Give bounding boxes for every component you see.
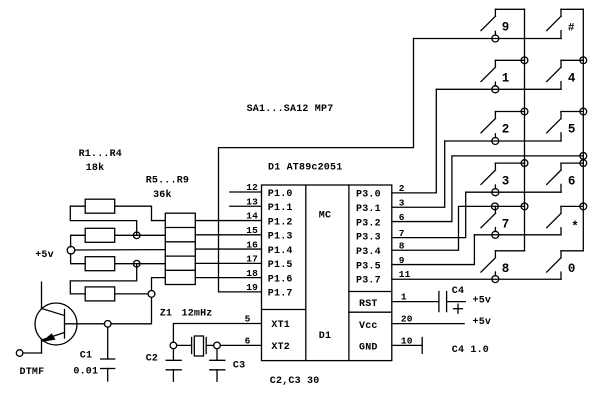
label +5v left: [35, 250, 54, 261]
pin label P3.7: [356, 276, 381, 287]
capacitor C3: [210, 349, 225, 382]
svg-text:RST: RST: [359, 299, 378, 310]
right column bus: [582, 9, 584, 251]
pin number 14: [246, 211, 258, 222]
svg-text:C4: C4: [452, 286, 464, 297]
svg-text:2: 2: [502, 123, 510, 137]
left bus junction row2: [521, 108, 528, 115]
svg-text:12mHz: 12mHz: [182, 308, 213, 319]
IC D1 AT89c2051 microcontroller body: [262, 185, 392, 361]
wire row3 to P3.3: [392, 192, 561, 237]
switch SA right row4 key *: [547, 206, 584, 234]
svg-text:P3.2: P3.2: [356, 218, 381, 229]
svg-text:#: #: [568, 23, 575, 35]
svg-text:4: 4: [568, 72, 576, 86]
pin number 12: [246, 182, 258, 193]
svg-text:P3.7: P3.7: [356, 276, 381, 287]
wire R3 to +5v: [71, 254, 86, 264]
node G junction: [492, 203, 499, 210]
pin number 18: [246, 268, 258, 279]
switch SA left row2 key 2: [481, 112, 525, 138]
pin label P1.7: [268, 289, 293, 300]
pin label P1.1: [268, 203, 293, 214]
svg-text:+5v: +5v: [473, 317, 492, 328]
label MC: [319, 211, 331, 222]
svg-text:C2,C3 30: C2,C3 30: [270, 376, 320, 387]
pin number 17: [246, 254, 258, 265]
wire node B to R4: [70, 264, 136, 294]
transistor Q1 collector: [42, 282, 65, 316]
label key 1: [502, 72, 510, 86]
svg-text:3: 3: [502, 174, 510, 188]
wire base to node D: [65, 323, 105, 325]
label key 4: [568, 72, 576, 86]
pin label P1.6: [268, 274, 293, 285]
node F junction: [214, 342, 221, 349]
pin number 13: [246, 196, 258, 207]
wire pin 14: [195, 220, 261, 222]
svg-text:0.01: 0.01: [73, 366, 98, 377]
left column bus: [524, 9, 526, 251]
pin label P1.0: [268, 189, 293, 200]
pin label XT1: [271, 320, 290, 331]
node D junction: [104, 321, 111, 328]
wire row4 to P3.5: [392, 235, 561, 265]
label C2,C3 30: [270, 376, 320, 387]
resistor R1: [85, 199, 115, 213]
svg-text:0: 0: [568, 262, 576, 276]
wire node C to base: [111, 297, 152, 324]
pin label P3.1: [356, 204, 381, 215]
pin number 19: [246, 282, 258, 293]
pin number 2: [399, 183, 405, 194]
svg-text:5: 5: [568, 123, 576, 137]
pin label P1.3: [268, 232, 293, 243]
pin number 5: [245, 314, 251, 325]
svg-text:D1: D1: [319, 331, 331, 342]
wire pin1 to C4: [392, 301, 439, 303]
pin number 10: [401, 335, 413, 346]
label +5v rst: [473, 295, 492, 306]
label key 3: [502, 174, 510, 188]
contact terminal key 2: [492, 138, 499, 145]
capacitor C4: [439, 292, 465, 312]
wire R1 to node A: [70, 206, 136, 235]
resistor network R5...R9 body: [165, 213, 195, 284]
transistor Q1 emitter: [42, 333, 65, 354]
left bus junction row4: [521, 203, 528, 210]
label key *: [571, 220, 579, 234]
crystal Z1: [177, 336, 214, 356]
label key 9: [502, 21, 510, 35]
left bus junction row3: [521, 160, 528, 167]
svg-text:7: 7: [502, 218, 510, 232]
label R1...R4: [79, 149, 122, 160]
svg-text:C1: C1: [80, 350, 92, 361]
svg-text:XT1: XT1: [271, 320, 290, 331]
right bus junction row4: [580, 203, 587, 210]
svg-text:1: 1: [502, 72, 510, 86]
label key 8: [502, 262, 510, 276]
svg-text:P1.4: P1.4: [268, 246, 293, 257]
wire pin20 Vcc: [392, 323, 464, 325]
label C3: [233, 360, 245, 371]
pin label P3.5: [356, 261, 381, 272]
wire P3.4 to left bus: [392, 206, 496, 250]
ground terminal: [421, 338, 423, 354]
switch SA left row5 key 8: [481, 251, 525, 276]
label C4 1.0: [452, 345, 489, 356]
wire pin 17: [195, 262, 261, 264]
svg-text:8: 8: [502, 262, 510, 276]
svg-text:+5v: +5v: [35, 250, 54, 261]
pin label XT2: [271, 342, 290, 353]
svg-text:P1.6: P1.6: [268, 274, 293, 285]
svg-text:DTMF: DTMF: [20, 367, 45, 378]
svg-text:P3.0: P3.0: [356, 190, 381, 201]
svg-text:C4 1.0: C4 1.0: [452, 345, 489, 356]
label key 7: [502, 218, 510, 232]
pin number 6: [399, 212, 405, 223]
transistor Q1 base bar: [64, 310, 66, 339]
wire pin 16: [195, 248, 261, 250]
right bus junction P3.2: [580, 153, 587, 160]
contact terminal key 1: [492, 86, 499, 93]
svg-text:P1.3: P1.3: [268, 232, 293, 243]
label key 2: [502, 123, 510, 137]
DTMF output terminal: [16, 350, 23, 357]
transistor Q1 body: [35, 303, 77, 345]
wire pin 13 stub: [230, 205, 262, 207]
wire row2 to P3.1: [392, 141, 561, 207]
contact terminal key 3: [492, 189, 499, 196]
svg-text:SA1...SA12 MP7: SA1...SA12 MP7: [247, 104, 334, 115]
node C junction: [148, 291, 155, 298]
pin number 20: [401, 314, 413, 325]
wire pin 18: [195, 277, 261, 279]
svg-text:P1.0: P1.0: [268, 189, 293, 200]
svg-text:36k: 36k: [153, 189, 172, 201]
switch SA left row0 key 9: [481, 9, 525, 35]
pin label Vcc: [359, 321, 378, 332]
wire R2 to +5v: [71, 235, 86, 247]
svg-text:P1.7: P1.7: [268, 289, 293, 300]
label SA1...SA12 MP7: [247, 104, 334, 115]
label 36k: [153, 189, 172, 201]
pin label P3.3: [356, 233, 381, 244]
pin number 15: [246, 225, 258, 236]
switch SA left row3 key 3: [481, 163, 525, 189]
right bus junction row2: [580, 108, 587, 115]
node E junction: [170, 342, 177, 349]
pin label P3.2: [356, 218, 381, 229]
pin label GND: [359, 342, 378, 353]
+5v supply terminal: [67, 246, 75, 254]
svg-text:P3.5: P3.5: [356, 261, 381, 272]
label C2: [146, 353, 158, 364]
label key 5: [568, 123, 576, 137]
svg-text:R1...R4: R1...R4: [79, 149, 122, 160]
pin number 1: [401, 292, 407, 303]
switch SA right row3 key 6: [547, 163, 584, 192]
svg-text:9: 9: [502, 21, 510, 35]
svg-text:18k: 18k: [86, 162, 105, 174]
contact terminal key 9: [492, 35, 499, 42]
right bus junction row1: [580, 57, 587, 64]
svg-text:+5v: +5v: [473, 295, 492, 306]
pin label P1.5: [268, 260, 293, 271]
resistor R2: [85, 228, 115, 242]
wire pin 12 stub: [230, 191, 262, 193]
pin number 16: [246, 239, 258, 250]
svg-text:R5...R9: R5...R9: [146, 176, 189, 187]
label 18k: [86, 162, 105, 174]
pin label P1.4: [268, 246, 293, 257]
wire pin10 GND: [392, 344, 422, 346]
wire XT1 pin5 to crystal: [173, 324, 261, 343]
label key 6: [568, 174, 576, 188]
svg-text:P1.1: P1.1: [268, 203, 293, 214]
switch SA right row2 key 5: [547, 112, 584, 142]
label key #: [568, 23, 575, 35]
capacitor C1: [101, 327, 115, 381]
pin number 7: [399, 228, 405, 239]
left bus junction row1: [521, 57, 528, 64]
label plus: [454, 304, 463, 313]
node B junction: [133, 260, 140, 267]
wire XT2 pin6 to crystal: [220, 344, 261, 346]
label 0.01: [73, 366, 98, 377]
svg-text:MC: MC: [319, 211, 331, 222]
pin number 11: [399, 269, 411, 280]
pin number 3: [399, 197, 405, 208]
svg-text:6: 6: [568, 174, 576, 188]
svg-text:XT2: XT2: [271, 342, 290, 353]
node A junction: [133, 232, 140, 239]
wire node C to R9: [152, 278, 166, 291]
label D1: [319, 331, 331, 342]
svg-text:P1.5: P1.5: [268, 260, 293, 271]
wire +5v to R7: [75, 249, 166, 251]
switch SA left row4 key 7: [481, 206, 525, 231]
label DTMF: [20, 367, 45, 378]
pin label P1.2: [268, 217, 293, 228]
contact terminal key 7: [492, 231, 499, 238]
svg-text:P1.2: P1.2: [268, 217, 293, 228]
wire P3.2 to right bus: [392, 156, 584, 222]
resistor R4: [85, 287, 115, 301]
svg-text:Vcc: Vcc: [359, 321, 378, 332]
wire emitter to DTMF: [23, 352, 42, 354]
wire pin 15: [195, 234, 261, 236]
svg-text:*: *: [571, 220, 579, 234]
switch SA left row1 key 1: [481, 60, 525, 86]
label D1 AT89c2051: [268, 162, 342, 173]
wire R3 to R8: [115, 263, 166, 265]
wire R4 to node C: [115, 293, 148, 295]
wire R1 to R5: [115, 206, 166, 220]
pin label RST: [359, 299, 378, 310]
svg-text:GND: GND: [359, 342, 378, 353]
contact terminal key 8: [492, 276, 499, 283]
pin number 6: [245, 335, 251, 346]
wire row5 to P3.7: [392, 278, 561, 280]
svg-text:P3.3: P3.3: [356, 233, 381, 244]
svg-text:P3.4: P3.4: [356, 247, 381, 258]
switch SA right row0 key #: [547, 9, 584, 38]
label +5v vcc: [473, 317, 492, 328]
resistor R3: [85, 257, 115, 271]
svg-text:Z1: Z1: [160, 308, 172, 319]
label key 0: [568, 262, 576, 276]
svg-text:C3: C3: [233, 360, 245, 371]
svg-text:C2: C2: [146, 353, 158, 364]
label R5...R9: [146, 176, 189, 187]
switch SA right row1 key 4: [547, 60, 584, 89]
capacitor C2: [166, 349, 181, 382]
right bus junction row3: [580, 160, 587, 167]
svg-text:11: 11: [399, 269, 411, 280]
label Z1 12mHz: [160, 308, 213, 319]
switch SA right row5 key 0: [547, 251, 584, 279]
svg-text:D1 AT89c2051: D1 AT89c2051: [268, 162, 342, 173]
label C1: [80, 350, 92, 361]
wire row1 to P3.0: [392, 89, 561, 193]
svg-text:P3.1: P3.1: [356, 204, 381, 215]
pin label P3.4: [356, 247, 381, 258]
pin number 8: [399, 240, 405, 251]
pin number 9: [399, 255, 405, 266]
wire row0 to P1.7: [219, 39, 562, 292]
label C4: [452, 286, 464, 297]
wire R2 to R6: [115, 234, 166, 236]
pin label P3.0: [356, 190, 381, 201]
